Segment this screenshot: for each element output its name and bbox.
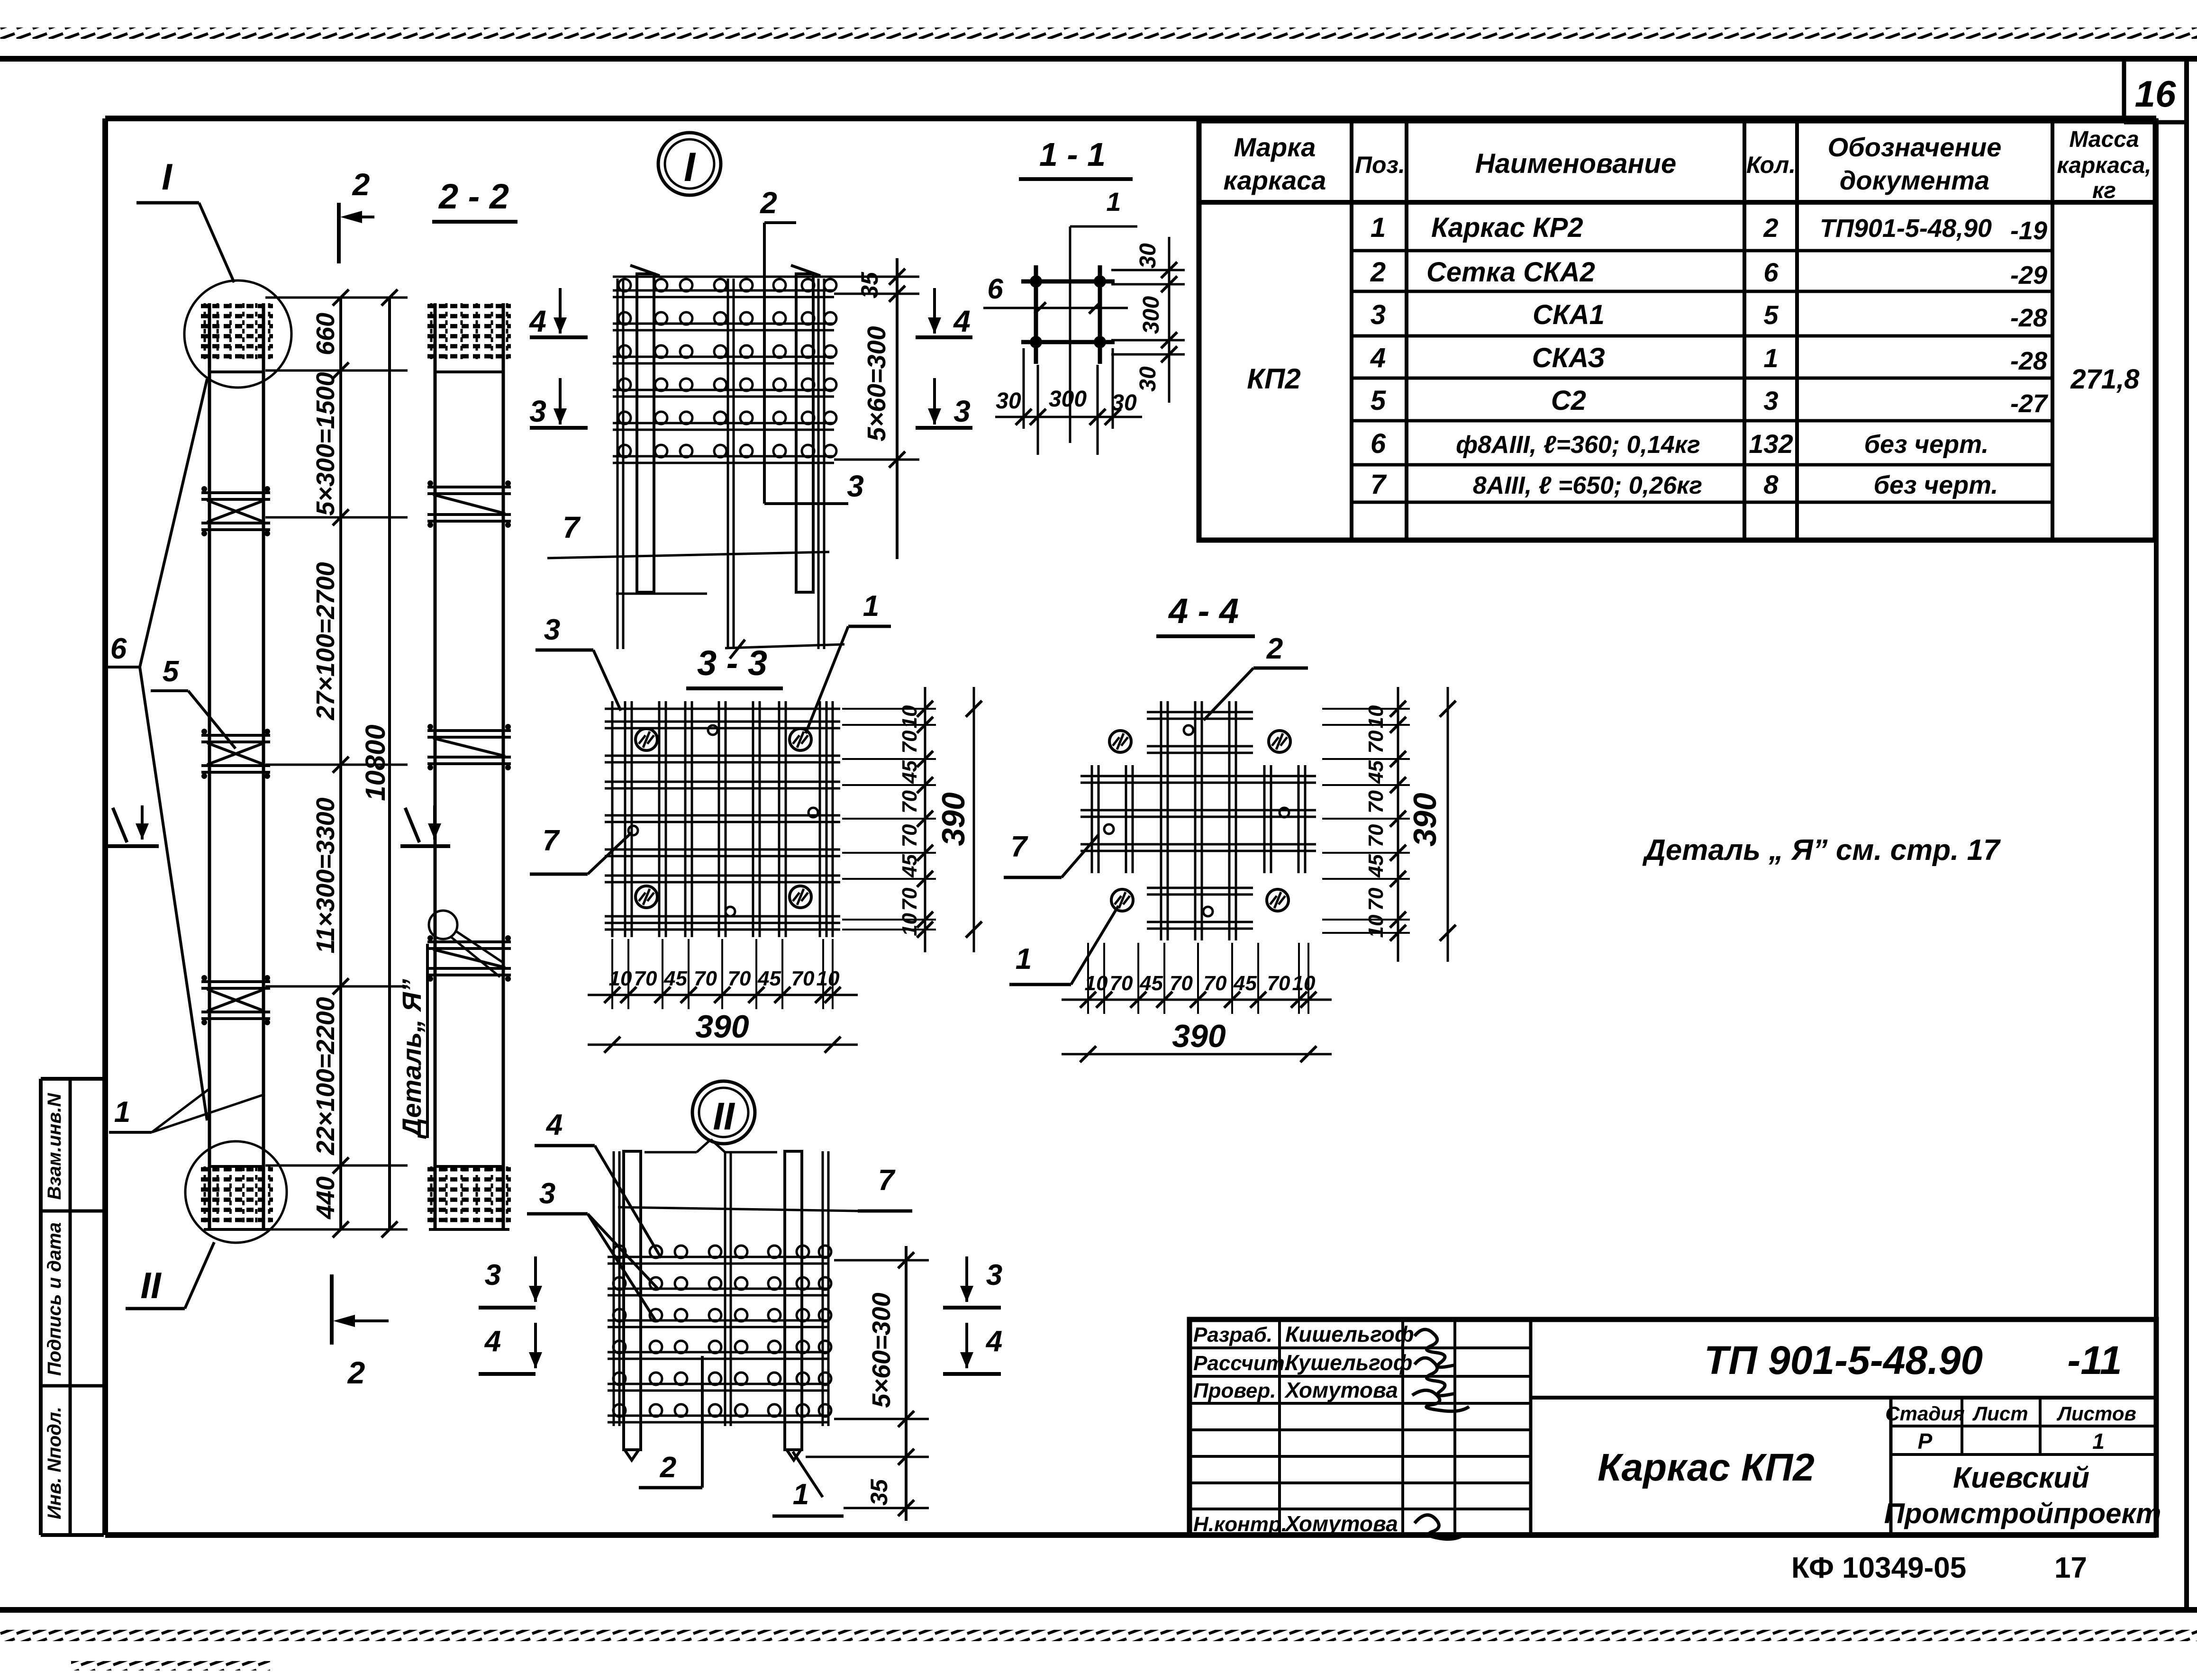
svg-text:35: 35 (856, 271, 883, 298)
view II top break (645, 1151, 697, 1154)
svg-text:II: II (140, 1265, 162, 1306)
section 1-1 corner dots (1030, 275, 1042, 288)
svg-text:ф8АΙΙΙ, ℓ=360; 0,14кг: ф8АΙΙΙ, ℓ=360; 0,14кг (1456, 431, 1700, 459)
svg-text:3: 3 (986, 1259, 1002, 1292)
svg-text:10: 10 (898, 913, 921, 936)
svg-text:70: 70 (634, 967, 657, 990)
svg-text:Обозначение: Обозначение (1828, 132, 2002, 162)
svg-text:2: 2 (760, 186, 777, 220)
svg-text:17: 17 (2054, 1552, 2087, 1584)
svg-text:Промстройпроект: Промстройпроект (1884, 1498, 2161, 1529)
spec table header line (1199, 200, 2155, 205)
svg-text:300: 300 (1139, 296, 1164, 334)
section mark 2 top (337, 203, 341, 263)
svg-text:70: 70 (898, 730, 921, 753)
svg-text:-11: -11 (2067, 1338, 2122, 1382)
section 3-3 small wires (708, 725, 717, 735)
top mesh hatch (201, 304, 273, 308)
svg-text:10: 10 (1292, 972, 1316, 995)
svg-text:Провер.: Провер. (1193, 1379, 1276, 1402)
svg-text:Масса: Масса (2069, 127, 2139, 152)
svg-text:8: 8 (1763, 470, 1779, 499)
svg-text:4 - 4: 4 - 4 (1168, 591, 1239, 631)
svg-text:-27: -27 (2010, 389, 2049, 418)
svg-text:45: 45 (1364, 760, 1388, 784)
svg-text:Листов: Листов (2056, 1402, 2136, 1425)
svg-text:Подпись и дата: Подпись и дата (44, 1222, 65, 1376)
brace zone 2 (201, 734, 270, 737)
svg-text:2: 2 (1266, 632, 1283, 665)
svg-text:45: 45 (1139, 972, 1163, 995)
title block middle divider (1531, 1396, 2156, 1400)
svg-text:3: 3 (847, 469, 864, 503)
svg-text:6: 6 (1371, 428, 1386, 459)
title block stadia grid (1961, 1398, 1963, 1454)
svg-text:Киевский: Киевский (1953, 1462, 2089, 1494)
dimension extension lines (265, 297, 408, 299)
svg-text:5×60=300: 5×60=300 (862, 326, 891, 441)
svg-text:-28: -28 (2010, 304, 2047, 332)
svg-text:1: 1 (793, 1478, 809, 1511)
svg-text:45: 45 (757, 967, 781, 990)
svg-text:10: 10 (609, 967, 632, 990)
column 2-2 bottom mesh (427, 1167, 511, 1172)
svg-text:Деталь „ Я” см. стр. 17: Деталь „ Я” см. стр. 17 (1642, 834, 2001, 867)
section 4-4 small wires (1184, 725, 1193, 735)
svg-text:СКА1: СКА1 (1533, 299, 1605, 330)
svg-text:5×60=300: 5×60=300 (867, 1292, 896, 1408)
view I dim 35 and 5x60=300 (834, 276, 919, 278)
view I top edge line (613, 276, 834, 278)
svg-text:2: 2 (1763, 213, 1778, 243)
svg-text:300: 300 (1049, 387, 1087, 412)
svg-text:70: 70 (1364, 790, 1388, 813)
svg-text:70: 70 (728, 967, 751, 990)
title block frame (1189, 1319, 2156, 1535)
section 3-3 bottom dims (611, 939, 613, 1009)
column 2-2 brace 2 (427, 729, 511, 732)
svg-text:7: 7 (1011, 831, 1028, 863)
svg-text:-28: -28 (2010, 347, 2047, 375)
section 3-3 grid (611, 701, 614, 937)
svg-text:Кол.: Кол. (1746, 152, 1796, 178)
svg-text:Деталь„ Я”: Деталь„ Я” (397, 979, 427, 1139)
right outer border line (2184, 59, 2189, 1610)
svg-text:22×100=2200: 22×100=2200 (311, 997, 340, 1155)
view I bar rows (613, 289, 834, 292)
svg-text:6: 6 (1763, 257, 1779, 287)
svg-text:10: 10 (1085, 972, 1108, 995)
view II thick bars (624, 1151, 641, 1450)
svg-text:1: 1 (1106, 187, 1121, 217)
svg-text:I: I (684, 145, 696, 190)
svg-text:30: 30 (1111, 390, 1137, 415)
svg-text:1: 1 (863, 590, 879, 623)
svg-text:70: 70 (1364, 730, 1388, 753)
svg-text:70: 70 (898, 790, 921, 813)
section 1-1 right dims (1111, 269, 1185, 271)
svg-text:4: 4 (985, 1325, 1002, 1358)
svg-text:-29: -29 (2010, 261, 2047, 289)
svg-text:Н.контр.: Н.контр. (1193, 1513, 1287, 1536)
brace zone 3 (201, 980, 270, 983)
detail A circle (429, 911, 457, 939)
svg-text:Хомутова: Хомутова (1284, 1511, 1398, 1536)
svg-text:Взам.инв.N: Взам.инв.N (44, 1093, 65, 1200)
svg-text:660: 660 (311, 313, 340, 355)
svg-text:390: 390 (1172, 1018, 1226, 1054)
svg-text:390: 390 (695, 1009, 749, 1045)
svg-text:2: 2 (1370, 257, 1386, 288)
svg-text:4: 4 (545, 1109, 563, 1141)
svg-text:ТП901-5-48,90: ТП901-5-48,90 (1820, 214, 1992, 243)
svg-text:без черт.: без черт. (1874, 471, 1998, 499)
column 2-2 top mesh (427, 304, 511, 308)
svg-text:КП2: КП2 (1247, 363, 1300, 395)
svg-text:70: 70 (1364, 887, 1388, 911)
svg-text:Сетка СКА2: Сетка СКА2 (1426, 257, 1595, 288)
svg-text:2: 2 (347, 1355, 365, 1390)
svg-text:2 - 2: 2 - 2 (438, 177, 509, 216)
column elevation rails (208, 303, 211, 1229)
svg-text:3 - 3: 3 - 3 (697, 643, 767, 683)
sheet frame (105, 116, 2156, 121)
detail circle II (185, 1141, 287, 1243)
svg-text:7: 7 (1371, 469, 1387, 500)
view II bar rows (608, 1256, 829, 1258)
svg-text:5: 5 (1763, 300, 1779, 330)
svg-text:3: 3 (1371, 299, 1386, 330)
svg-text:1: 1 (1016, 943, 1032, 975)
svg-text:16: 16 (2135, 73, 2176, 115)
svg-text:Лист: Лист (1972, 1402, 2028, 1425)
bottom border line (0, 1607, 2197, 1613)
svg-text:Кушельгоф: Кушельгоф (1285, 1350, 1412, 1375)
column 2-2 brace 3 (427, 940, 511, 943)
svg-text:10: 10 (898, 705, 921, 728)
svg-text:70: 70 (898, 824, 921, 847)
svg-text:Марка: Марка (1234, 132, 1316, 162)
svg-text:5×300=1500: 5×300=1500 (311, 372, 340, 515)
svg-text:10800: 10800 (360, 724, 391, 801)
svg-text:10: 10 (1364, 705, 1388, 728)
svg-text:30: 30 (1135, 243, 1161, 269)
spec table frame (1199, 121, 2155, 540)
bottom mesh hatch (201, 1167, 273, 1172)
svg-text:3: 3 (539, 1177, 555, 1210)
section 3-3 hatched bars (635, 729, 657, 750)
svg-text:Рассчит.: Рассчит. (1193, 1352, 1290, 1375)
svg-text:ТП 901-5-48.90: ТП 901-5-48.90 (1704, 1338, 1983, 1382)
svg-text:30: 30 (1135, 366, 1161, 392)
section 4-4 bottom dims (1087, 943, 1089, 1014)
svg-text:СКАЗ: СКАЗ (1532, 343, 1606, 373)
svg-text:Кишельгоф: Кишельгоф (1285, 1322, 1414, 1346)
top border line (0, 56, 2197, 62)
svg-text:271,8: 271,8 (2070, 364, 2140, 395)
svg-text:4: 4 (484, 1325, 501, 1358)
svg-text:3: 3 (1763, 386, 1778, 415)
section 3-3 right dims (842, 708, 936, 710)
view I thin bars (617, 279, 619, 649)
svg-text:3: 3 (544, 614, 560, 646)
svg-text:1: 1 (1763, 343, 1778, 373)
svg-text:7: 7 (878, 1164, 896, 1197)
svg-text:II: II (713, 1095, 735, 1138)
svg-text:3: 3 (953, 394, 971, 428)
svg-text:10: 10 (1364, 914, 1388, 938)
svg-text:70: 70 (898, 887, 921, 911)
svg-text:каркаса,: каркаса, (2057, 153, 2151, 178)
circled I symbol (658, 133, 721, 195)
svg-text:70: 70 (1204, 972, 1227, 995)
svg-text:-19: -19 (2010, 217, 2047, 245)
svg-text:2: 2 (660, 1451, 676, 1484)
svg-text:45: 45 (663, 967, 687, 990)
left stamp strip frame (41, 1077, 104, 1081)
page number box (2122, 61, 2126, 122)
svg-text:кг: кг (2092, 178, 2116, 203)
svg-text:каркаса: каркаса (1224, 165, 1326, 195)
svg-text:3: 3 (529, 394, 546, 428)
svg-text:Хомутова: Хомутова (1284, 1378, 1398, 1402)
svg-text:45: 45 (1364, 854, 1388, 878)
svg-text:45: 45 (898, 854, 921, 878)
section 1-1 bars (1034, 265, 1038, 364)
section mark 2 bottom (330, 1274, 334, 1345)
svg-text:Каркас КР2: Каркас КР2 (1431, 212, 1583, 243)
bottom partial zigzag (71, 1661, 270, 1671)
svg-text:10: 10 (817, 967, 840, 990)
top zigzag border (0, 27, 2197, 39)
signatures (1415, 1329, 1455, 1367)
svg-text:2: 2 (352, 167, 370, 202)
svg-text:70: 70 (791, 967, 815, 990)
svg-text:45: 45 (1233, 972, 1257, 995)
column 2-2 brace 1 (427, 486, 511, 488)
svg-text:КФ 10349-05: КФ 10349-05 (1791, 1552, 1966, 1584)
svg-text:Р: Р (1918, 1429, 1933, 1454)
dimension line segments (339, 298, 342, 1229)
view I thick bars (637, 274, 654, 592)
view I bottom lines (616, 593, 707, 595)
svg-text:70: 70 (1267, 972, 1290, 995)
section 4-4 right dims (1322, 708, 1410, 710)
svg-text:I: I (162, 156, 172, 198)
svg-text:5: 5 (163, 655, 180, 688)
svg-text:8АΙΙΙ, ℓ =650; 0,26кг: 8АΙΙΙ, ℓ =650; 0,26кг (1473, 472, 1702, 499)
svg-text:Инв. Nподл.: Инв. Nподл. (44, 1407, 65, 1519)
section mark 1 left (113, 808, 127, 842)
svg-text:3: 3 (485, 1259, 501, 1292)
section 1-1 bottom dims (1023, 348, 1025, 429)
bottom zigzag border (0, 1630, 2197, 1641)
svg-text:70: 70 (1110, 972, 1133, 995)
circled II symbol (692, 1081, 755, 1144)
svg-text:390: 390 (1407, 793, 1443, 847)
spec table row lines (1352, 249, 2052, 253)
svg-text:70: 70 (694, 967, 717, 990)
section 4-4 cross grid (1160, 701, 1162, 940)
svg-text:Разраб.: Разраб. (1193, 1323, 1272, 1346)
svg-text:Стадия: Стадия (1885, 1402, 1964, 1425)
svg-text:Поз.: Поз. (1355, 152, 1405, 178)
svg-text:11×300=3300: 11×300=3300 (311, 797, 340, 953)
svg-text:6: 6 (987, 273, 1003, 305)
svg-text:1 - 1: 1 - 1 (1039, 136, 1106, 173)
svg-text:без черт.: без черт. (1864, 430, 1989, 459)
svg-text:5: 5 (1371, 385, 1386, 416)
svg-text:70: 70 (1364, 824, 1388, 847)
svg-text:1: 1 (2092, 1429, 2105, 1454)
svg-text:7: 7 (543, 824, 560, 857)
brace zone 1 (201, 491, 270, 494)
svg-text:С2: С2 (1551, 385, 1586, 416)
svg-text:Наименование: Наименование (1475, 148, 1676, 179)
svg-text:документа: документа (1840, 165, 1989, 195)
svg-text:45: 45 (898, 760, 921, 784)
column 2-2 rails (434, 303, 437, 1229)
svg-text:27×100=2700: 27×100=2700 (311, 562, 340, 720)
svg-text:132: 132 (1749, 429, 1793, 459)
dimension line 10800 (388, 298, 391, 1229)
svg-text:70: 70 (1170, 972, 1193, 995)
svg-text:6: 6 (110, 632, 127, 665)
svg-text:30: 30 (996, 388, 1021, 414)
svg-text:4: 4 (528, 304, 546, 338)
view II thin bars (613, 1151, 615, 1426)
svg-text:1: 1 (1371, 212, 1386, 243)
section mark 1 right (405, 808, 419, 842)
svg-text:35: 35 (866, 1479, 892, 1506)
svg-text:390: 390 (935, 792, 971, 846)
title block left grid (1189, 1346, 1531, 1349)
svg-text:Каркас КП2: Каркас КП2 (1598, 1446, 1815, 1489)
svg-text:4: 4 (953, 304, 971, 338)
svg-text:440: 440 (311, 1176, 340, 1219)
section 4-4 hatched bars (1109, 731, 1131, 752)
detail circle I (184, 280, 291, 388)
svg-text:7: 7 (563, 510, 581, 544)
view II dims (834, 1259, 929, 1262)
svg-text:1: 1 (114, 1096, 130, 1129)
svg-text:4: 4 (1370, 343, 1386, 373)
